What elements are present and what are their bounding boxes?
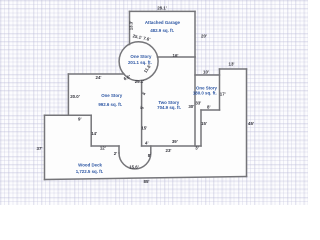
garage left wall — [129, 11, 131, 44]
svg-text:25.1': 25.1' — [135, 79, 145, 84]
step right wall (14 ft) — [90, 115, 92, 146]
svg-text:39': 39' — [172, 139, 178, 144]
right wing top wall (13 ft) — [220, 68, 247, 70]
svg-text:33': 33' — [195, 101, 201, 106]
svg-text:8': 8' — [207, 104, 211, 109]
svg-text:12': 12' — [100, 146, 106, 151]
svg-text:One Story: One Story — [101, 93, 123, 98]
svg-text:20': 20' — [201, 33, 207, 38]
svg-text:28.1': 28.1' — [157, 5, 167, 10]
svg-text:15': 15' — [141, 126, 147, 131]
bay left stub (2 ft) — [118, 146, 120, 153]
svg-text:4': 4' — [145, 141, 149, 146]
svg-text:15.6': 15.6' — [129, 165, 139, 170]
garage top wall — [130, 10, 196, 12]
svg-text:482.9 sq. ft.: 482.9 sq. ft. — [150, 28, 174, 33]
step bottom wall (12 ft) — [91, 145, 119, 147]
garage right wall — [194, 11, 196, 57]
svg-text:992.6 sq. ft.: 992.6 sq. ft. — [98, 102, 122, 107]
svg-text:30': 30' — [188, 104, 194, 109]
svg-text:45': 45' — [248, 121, 254, 126]
one story turret circle fill — [119, 42, 158, 81]
svg-text:13.3': 13.3' — [129, 21, 134, 31]
right wing notch left wall (15 ft) — [200, 110, 202, 146]
deck bottom wall (85 ft) — [45, 177, 247, 180]
svg-text:1,722.5 sq. ft.: 1,722.5 sq. ft. — [76, 169, 104, 174]
deck top wall (9 ft step) — [45, 114, 92, 116]
svg-text:9': 9' — [78, 117, 82, 122]
svg-text:4': 4' — [142, 92, 147, 96]
svg-text:14': 14' — [91, 131, 97, 136]
svg-text:23': 23' — [166, 148, 172, 153]
bay right stub — [150, 146, 152, 153]
svg-text:20.0': 20.0' — [70, 94, 80, 99]
svg-text:5': 5' — [140, 106, 145, 110]
svg-text:24': 24' — [96, 75, 102, 80]
svg-text:2': 2' — [114, 151, 118, 156]
svg-text:704.9 sq. ft.: 704.9 sq. ft. — [157, 105, 181, 110]
left wing left wall (20 ft) — [67, 74, 69, 115]
svg-text:Attached Garage: Attached Garage — [145, 20, 181, 25]
svg-text:8': 8' — [148, 153, 152, 158]
svg-text:37': 37' — [37, 146, 43, 151]
svg-text:Wood Deck: Wood Deck — [78, 163, 102, 168]
right wing notch bottom wall (8 ft) — [201, 109, 220, 111]
garage bottom wall (16 ft) — [157, 56, 195, 58]
svg-text:15': 15' — [201, 121, 207, 126]
curved bay wall (15.6 ft) — [119, 153, 151, 169]
house footprint white union fill — [45, 11, 247, 179]
svg-text:180.0 sq. ft.: 180.0 sq. ft. — [193, 90, 217, 95]
svg-text:3': 3' — [195, 146, 199, 151]
svg-text:One Story: One Story — [130, 54, 152, 59]
svg-text:10': 10' — [203, 69, 209, 74]
two story bottom wall — [142, 145, 201, 147]
right outer wall (45 ft) — [246, 69, 248, 177]
deck left wall (37 ft) — [44, 115, 46, 179]
two story left wall — [141, 81, 143, 146]
svg-text:16': 16' — [173, 53, 179, 58]
circle turret wall — [119, 42, 158, 81]
right wing left wall (17 ft) — [219, 69, 221, 110]
right wing top-left wall (10 ft) — [195, 74, 220, 76]
two story right wall (30 ft) — [194, 57, 196, 146]
svg-text:17': 17' — [220, 92, 226, 97]
left wing top wall (24 ft) — [68, 73, 123, 75]
svg-text:85': 85' — [144, 179, 150, 184]
svg-text:13': 13' — [229, 62, 235, 67]
